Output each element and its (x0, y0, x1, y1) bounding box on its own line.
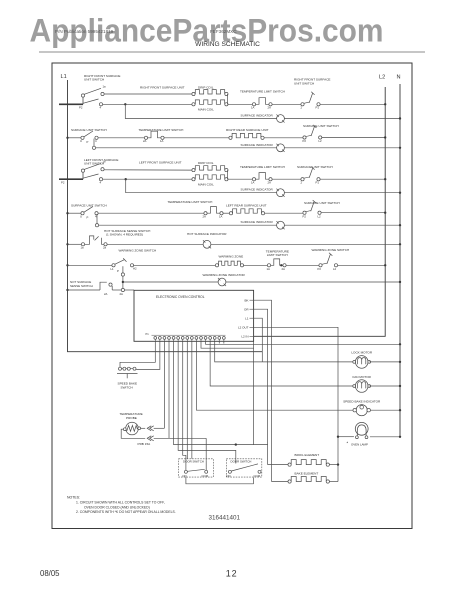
svg-text:P2: P2 (318, 267, 322, 271)
svg-text:2A: 2A (203, 214, 207, 218)
N bus (399, 84, 401, 437)
svg-text:TEMPERATURE LIMIT SWITCH: TEMPERATURE LIMIT SWITCH (240, 90, 285, 94)
wire row4 to N (284, 147, 400, 149)
node row5 branch junction (125, 178, 127, 180)
wire t14 to lock row (215, 341, 263, 362)
svg-text:L1: L1 (111, 267, 115, 271)
svg-text:P2: P2 (61, 181, 65, 185)
svg-text:2. COMPONENTS WITH *K DO NO: 2. COMPONENTS WITH *K DO NOT APPEAR ON A… (76, 510, 176, 514)
door switch 1 (179, 459, 214, 477)
svg-text:N: N (397, 75, 401, 81)
svg-text:SURFACE INDICATOR: SURFACE INDICATOR (241, 188, 274, 192)
svg-text:UNIT SWITCH: UNIT SWITCH (294, 81, 314, 85)
wire row7 (98, 212, 204, 214)
svg-text:DRIP COIL: DRIP COIL (198, 161, 214, 165)
node row10-L1 (66, 264, 68, 266)
svg-text:UNIT SWITCH: UNIT SWITCH (84, 77, 104, 81)
svg-text:U: U (80, 214, 82, 218)
node broil junction (337, 463, 339, 465)
node row5-L2 (384, 178, 386, 180)
svg-text:WARMING ZONE INDICATOR: WARMING ZONE INDICATOR (203, 273, 246, 277)
wire row5 to L2 (320, 178, 385, 180)
svg-text:1A: 1A (267, 267, 271, 271)
wire L2 IN (253, 335, 385, 337)
node row6-N (399, 192, 401, 194)
svg-text:LEFT FRONT SURFACE UNIT: LEFT FRONT SURFACE UNIT (139, 160, 182, 164)
oven lamp (355, 422, 368, 435)
wire row1 to limit switch (228, 103, 253, 105)
wire L1 out (253, 318, 262, 362)
svg-text:P1: P1 (146, 332, 150, 336)
svg-text:TEMPERATURE LIMIT SWITCH: TEMPERATURE LIMIT SWITCH (139, 128, 184, 132)
node row9-L1 (66, 243, 68, 245)
svg-text:SURFACE UNIT SWITCH: SURFACE UNIT SWITCH (304, 201, 340, 205)
svg-text:1a: 1a (103, 85, 107, 89)
wire coil join (227, 94, 229, 104)
svg-text:FEF362MXC: FEF362MXC (210, 29, 237, 34)
svg-text:L2: L2 (379, 75, 385, 81)
speed bake switch connector (119, 367, 122, 370)
svg-text:08/05: 08/05 (40, 569, 60, 578)
wire t5 to door switches (174, 341, 268, 444)
wire coil join row5 (227, 170, 229, 179)
wire t9 drop (191, 341, 193, 459)
node row1-L2 (384, 103, 386, 105)
wire row2 to N (284, 118, 400, 120)
svg-text:12: 12 (226, 569, 238, 579)
svg-text:SURFACE UNIT SWITCH: SURFACE UNIT SWITCH (303, 124, 339, 128)
wire t13 to fan row (210, 341, 354, 386)
node row4-N (399, 147, 401, 149)
svg-text:OVEN DOOR CLOSED (AND UNLOCKED: OVEN DOOR CLOSED (AND UNLOCKED) (84, 505, 150, 509)
wire row7 to L2 (321, 212, 385, 214)
wire row5 top branch (104, 169, 192, 171)
node row7-L2 (384, 212, 386, 214)
L2 bus (254, 87, 386, 336)
wire probe top (141, 427, 146, 429)
svg-text:WARMING ZONE: WARMING ZONE (219, 254, 244, 258)
svg-text:L2 OUT: L2 OUT (238, 326, 249, 330)
wire row10 to L2 (338, 264, 386, 266)
svg-text:2A: 2A (104, 292, 108, 296)
wire BK (253, 300, 271, 481)
wire row10 (244, 264, 268, 266)
wire warming drop (122, 266, 124, 290)
L1 bus (68, 80, 263, 352)
svg-text:LIMIT SWITCH: LIMIT SWITCH (267, 253, 288, 257)
wire t11 stub (201, 341, 254, 348)
header rule (39, 51, 425, 53)
svg-text:WARMING ZONE SWITCH: WARMING ZONE SWITCH (119, 249, 157, 253)
svg-text:TEMPERATURE LIMIT SWITCH: TEMPERATURE LIMIT SWITCH (240, 165, 285, 169)
svg-text:SURFACE UNIT SWITCH: SURFACE UNIT SWITCH (71, 128, 107, 132)
svg-text:SENSE SWITCH: SENSE SWITCH (70, 284, 93, 288)
node row2-N (399, 117, 401, 119)
svg-text:COM: COM (254, 474, 261, 478)
svg-text:WIRING SCHEMATIC: WIRING SCHEMATIC (195, 41, 260, 48)
wire indicator branch row2 (125, 104, 276, 118)
electronic oven control U1 (134, 290, 254, 341)
svg-text:NOTES:: NOTES: (67, 496, 80, 500)
svg-text:P1: P1 (316, 181, 320, 185)
svg-text:LOCK MOTOR: LOCK MOTOR (351, 350, 373, 354)
wire indicator branch row6 (126, 179, 277, 193)
wire lamp row (338, 436, 354, 438)
node lock-N (399, 361, 401, 363)
node row10-L2 (384, 264, 386, 266)
svg-text:1b: 1b (103, 160, 107, 164)
wire row7 (265, 212, 303, 214)
svg-text:LEFT REAR SURFACE UNIT: LEFT REAR SURFACE UNIT (226, 203, 267, 207)
svg-text:COM: COM (202, 474, 209, 478)
wire t7 to door switch 1 NO (183, 341, 186, 470)
svg-text:2A: 2A (282, 267, 286, 271)
svg-text:P2: P2 (79, 105, 83, 109)
wire row9 to N (211, 243, 400, 245)
svg-text:2a: 2a (103, 246, 107, 250)
svg-text:WARMING ZONE SWITCH: WARMING ZONE SWITCH (312, 248, 350, 252)
svg-text:MAIN COIL: MAIN COIL (198, 182, 214, 186)
svg-text:P2: P2 (303, 139, 307, 143)
wire row6 to N (284, 192, 400, 194)
svg-text:HOT SURFACE INDICATOR: HOT SURFACE INDICATOR (187, 232, 227, 236)
wire L2 OUT (253, 327, 338, 481)
svg-text:1A: 1A (251, 181, 255, 185)
svg-text:(1 SHOWN, 4 REQUIRED): (1 SHOWN, 4 REQUIRED) (106, 233, 143, 237)
wire row5 bottom (103, 178, 192, 180)
svg-text:U: U (80, 139, 82, 143)
wire probe bottom extension (154, 437, 207, 439)
svg-text:P1: P1 (316, 106, 320, 110)
wire indicator branch row4 (93, 139, 95, 147)
wire row3 (98, 137, 144, 139)
wire t1 to speed bake switch (120, 341, 155, 367)
wire row1 top branch (104, 93, 192, 95)
svg-text:1. CIRCUIT SHOWN WITH ALL CON: 1. CIRCUIT SHOWN WITH ALL CONTROLS SET T… (76, 501, 165, 505)
node sbi-N (399, 409, 401, 411)
wire t10 to speed bake indicator row (196, 341, 356, 410)
wire probe bottom loop (121, 429, 145, 438)
wire row12 to EOC (125, 289, 135, 291)
node fan-N (399, 385, 401, 387)
wire t3 to probe top (163, 341, 165, 428)
wire OR (253, 309, 267, 464)
wire t16 stub (223, 341, 225, 343)
door switch 2 (226, 459, 261, 477)
svg-text:1A: 1A (219, 214, 223, 218)
wire t15 stub (218, 341, 220, 343)
node row3-L2 (384, 136, 386, 138)
wire EOC corner drop (253, 341, 255, 444)
wire row7 (223, 212, 229, 214)
connector chevrons top (147, 426, 154, 431)
svg-text:DRIP COIL: DRIP COIL (198, 86, 214, 90)
svg-text:L1: L1 (61, 74, 67, 80)
svg-text:FAN MOTOR: FAN MOTOR (353, 375, 372, 379)
svg-text:PROBE: PROBE (126, 416, 137, 420)
svg-text:SWITCH: SWITCH (121, 386, 133, 390)
svg-text:2A: 2A (120, 292, 124, 296)
node row7-L1 (66, 212, 68, 214)
node t5 junction (235, 443, 237, 445)
svg-text:DOOR SWITCH: DOOR SWITCH (183, 460, 204, 464)
svg-text:2A: 2A (268, 181, 272, 185)
wire row5 (228, 178, 253, 180)
wire row1 to L2 (320, 103, 385, 105)
svg-text:SURFACE INDICATOR: SURFACE INDICATOR (241, 220, 274, 224)
svg-text:L2: L2 (333, 267, 337, 271)
svg-text:PRB 15A: PRB 15A (138, 442, 152, 446)
svg-text:2A: 2A (143, 139, 147, 143)
right front surface unit switch (left pole) (59, 103, 83, 105)
wire row1 bottom (103, 103, 192, 105)
wire indicator branch row8 (96, 214, 98, 224)
svg-text:OVEN LAMP: OVEN LAMP (351, 442, 368, 446)
svg-text:1A: 1A (160, 139, 164, 143)
node lamp-N (399, 436, 401, 438)
node row12-L1 (66, 289, 68, 291)
wire row1 (272, 103, 301, 105)
outer border (52, 63, 412, 529)
svg-text:RIGHT FRONT SURFACE UNIT: RIGHT FRONT SURFACE UNIT (140, 86, 185, 90)
svg-text:MAIN COIL: MAIN COIL (198, 107, 214, 111)
wire row3 (164, 137, 229, 139)
wire row3 to L2 (322, 137, 385, 139)
wire row11 (123, 281, 218, 283)
svg-text:BK: BK (244, 298, 248, 302)
svg-text:P: P (87, 215, 89, 219)
node y344-N (399, 343, 401, 345)
node row11-N (399, 281, 401, 283)
svg-text:SPEED BAKE INDICATOR: SPEED BAKE INDICATOR (343, 399, 381, 403)
node row9-N (399, 243, 401, 245)
wire row11 to N (226, 281, 400, 283)
svg-text:L1: L1 (245, 316, 249, 320)
wire below door switches (186, 477, 254, 484)
svg-text:P2: P2 (303, 214, 307, 218)
svg-text:L2: L2 (319, 139, 323, 143)
svg-text:P/N Publication 5995421819: P/N Publication 5995421819 (55, 29, 114, 34)
wire row9 (107, 243, 203, 245)
svg-text:SURFACE UNIT SWITCH: SURFACE UNIT SWITCH (297, 165, 333, 169)
svg-text:SURFACE INDICATOR: SURFACE INDICATOR (241, 143, 274, 147)
svg-text:P: P (87, 140, 89, 144)
wire row10 (286, 264, 319, 266)
svg-text:316441401: 316441401 (209, 515, 241, 522)
svg-text:UNIT SWITCH: UNIT SWITCH (84, 162, 104, 166)
svg-text:BROIL ELEMENT: BROIL ELEMENT (295, 453, 320, 457)
node row1 branch junction (124, 103, 126, 105)
connector chevrons bottom (147, 436, 154, 441)
svg-text:BAKE ELEMENT: BAKE ELEMENT (295, 471, 319, 475)
svg-text:ELECTRONIC OVEN CONTROL: ELECTRONIC OVEN CONTROL (156, 295, 205, 299)
svg-text:L2: L2 (318, 214, 322, 218)
node row3-L1 (66, 137, 68, 139)
svg-text:1A: 1A (251, 106, 255, 110)
EOC terminal strip line (152, 334, 226, 336)
svg-text:P: P (117, 269, 119, 273)
wire row8 to N (284, 224, 400, 226)
wire row3 (264, 137, 303, 139)
svg-text:SURFACE UNIT SWITCH: SURFACE UNIT SWITCH (71, 203, 107, 207)
svg-text:L2 IN: L2 IN (241, 335, 248, 339)
wire t2 to speed bake switch (136, 341, 160, 369)
svg-text:1a: 1a (81, 246, 85, 250)
svg-text:SURFACE INDICATOR: SURFACE INDICATOR (241, 113, 274, 117)
wire row5 (272, 178, 301, 180)
wire t12 to N via y344 (206, 341, 400, 344)
svg-text:2A: 2A (268, 106, 272, 110)
wire t4 to probe bottom (168, 341, 170, 438)
wire t6 to door switch 2 (178, 341, 236, 463)
svg-text:TEMPERATURE LIMIT SWITCH: TEMPERATURE LIMIT SWITCH (168, 200, 213, 204)
wire row10 (134, 264, 216, 266)
svg-text:H2: H2 (133, 267, 137, 271)
wire t8 drop (186, 341, 188, 459)
node row8-N (399, 224, 401, 226)
svg-text:DOOR SWITCH: DOOR SWITCH (231, 460, 252, 464)
svg-text:RIGHT REAR SURFACE UNIT: RIGHT REAR SURFACE UNIT (226, 128, 269, 132)
